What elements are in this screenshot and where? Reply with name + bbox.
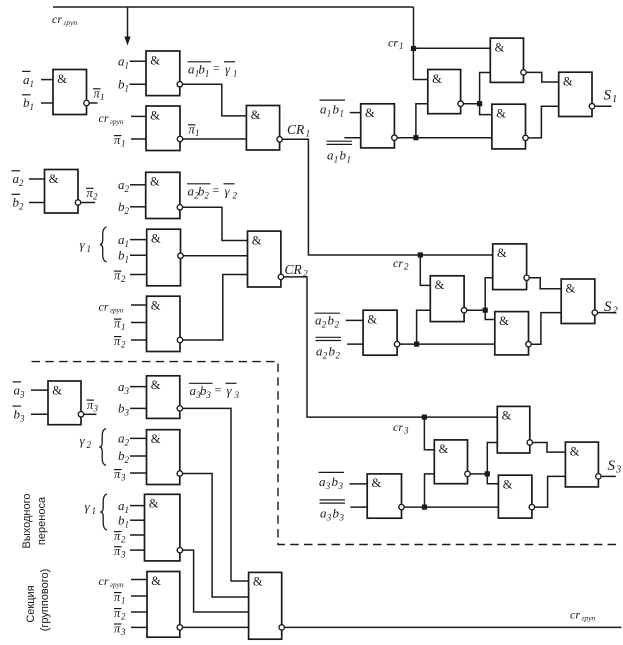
bubble V5 output <box>526 342 531 347</box>
svg-text:1: 1 <box>399 41 404 51</box>
NAND gate CR2 (carry 2) <box>248 231 281 287</box>
svg-text:&: & <box>151 574 161 588</box>
label b2 <box>118 199 130 216</box>
svg-text:2: 2 <box>336 351 341 361</box>
svg-text:&: & <box>496 107 506 121</box>
svg-text:&: & <box>252 233 262 247</box>
label cr_grup top-left <box>52 12 77 27</box>
label a3b3 double overline <box>320 500 346 523</box>
wire junction up to X2 input 2 <box>425 474 435 507</box>
NAND gate G5 (cr_grup pi1 pi2) <box>147 296 181 351</box>
NAND gate G8 (a1 b1 pi2 pi3) <box>145 494 180 561</box>
svg-text:1: 1 <box>340 109 345 119</box>
NAND gate U1 (re-invert a1b1) <box>361 104 395 148</box>
wire G5 output to CR2 input 3 <box>183 275 248 341</box>
wire pi1 input to G2 <box>131 138 146 140</box>
svg-text:b: b <box>329 344 336 359</box>
wire a2' input to P2 <box>29 178 45 180</box>
brace gamma1 group at G4 <box>100 227 107 262</box>
svg-text:1: 1 <box>92 506 97 516</box>
svg-text:1: 1 <box>334 155 339 165</box>
NAND gate V3 <box>493 244 527 290</box>
svg-text:1: 1 <box>306 130 311 140</box>
NAND gate CR1 (carry 1) <box>246 106 279 151</box>
wire a3' input to P3 <box>31 389 48 391</box>
NAND gate P1 (pi1 = not(a1'b1')) <box>53 70 87 115</box>
bubble V6 output <box>592 310 597 315</box>
svg-text:3: 3 <box>120 627 126 637</box>
NAND gate X6 (sum S3) <box>565 442 598 487</box>
wire a1 input to G8 <box>130 505 145 507</box>
NAND gate V2 <box>430 276 464 322</box>
label cr2 <box>393 256 409 272</box>
bubble G2 output <box>177 136 182 141</box>
node cr1 junction <box>411 46 416 51</box>
label b3 overline <box>13 406 26 423</box>
NAND gate X2 <box>434 440 467 484</box>
svg-text:cr: cr <box>393 256 403 270</box>
NAND gate P2 (pi2 = not(a2'b2')) <box>45 170 79 214</box>
svg-text:S: S <box>604 299 612 315</box>
label a2 at G7 <box>118 431 130 448</box>
svg-text:1: 1 <box>121 596 126 606</box>
NAND gate X1 (re-invert a3b3) <box>367 474 401 518</box>
label a1 at G4 <box>118 232 129 249</box>
label pi2 at G9 <box>114 606 126 622</box>
svg-text:груп: груп <box>582 614 596 623</box>
svg-text:Выходного: Выходного <box>21 494 33 549</box>
label a3 overline <box>13 382 26 399</box>
wire cr_grup input to G5 <box>131 304 147 306</box>
wire junction down to U5 input 1 <box>480 104 492 115</box>
label gamma1 at G4 <box>80 237 92 254</box>
svg-text:π: π <box>114 590 121 604</box>
svg-text:π: π <box>114 606 121 620</box>
svg-text:&: & <box>563 75 573 89</box>
NAND gate G3 (a2 b2) <box>146 172 180 218</box>
label S1 <box>604 88 618 106</box>
wire P2 output stub <box>81 202 95 204</box>
wire U3 output to U6 input 1 <box>526 72 559 82</box>
svg-text:2: 2 <box>121 535 126 545</box>
label cr_grup at G9 <box>99 574 124 589</box>
svg-text:2: 2 <box>93 192 98 202</box>
wire P3 output stub <box>84 413 97 415</box>
svg-text:3: 3 <box>234 390 240 400</box>
svg-text:π: π <box>114 467 121 481</box>
label pi2 at G4 <box>114 269 126 285</box>
wire b1 input to G8 <box>130 519 145 521</box>
bubble P1 output <box>84 100 89 105</box>
svg-text:3: 3 <box>93 403 99 413</box>
svg-text:1: 1 <box>125 519 130 529</box>
wire V5 output to V6 input 2 <box>531 313 561 345</box>
label pi2 at G5 <box>114 334 126 350</box>
svg-text:2: 2 <box>87 440 92 450</box>
svg-text:cr: cr <box>99 111 109 125</box>
wire cr2 down to V2 input 1 <box>420 255 430 285</box>
bubble U5 output <box>523 135 528 140</box>
svg-text:2: 2 <box>19 202 24 212</box>
svg-text:γ: γ <box>227 383 233 398</box>
brace gamma2 group at G7 <box>99 429 106 466</box>
wire S1 output <box>595 105 612 107</box>
svg-text:γ: γ <box>225 184 231 199</box>
wire pi2 input to G5 <box>131 339 147 341</box>
label cr_grup at G2 <box>99 111 124 126</box>
wire a3b3' input to X1 <box>350 483 368 485</box>
wire G1 output to CR1 input 1 <box>183 84 247 116</box>
node cr3 junction <box>422 415 427 420</box>
svg-text:2: 2 <box>125 438 130 448</box>
svg-text:&: & <box>251 108 261 122</box>
svg-text:&: & <box>49 172 59 186</box>
svg-text:&: & <box>435 278 445 292</box>
wire b2 input to G3 <box>130 206 146 208</box>
svg-text:3: 3 <box>326 513 332 523</box>
wire pi2 input to G8 <box>130 534 145 536</box>
NAND gate V6 (sum S2) <box>561 279 595 324</box>
wire junction up to U3 input 2 <box>480 73 491 104</box>
label CR1 <box>287 122 310 140</box>
label cr_grup at G5 <box>99 300 124 315</box>
wire U2 output to junction <box>463 103 479 105</box>
svg-text:3: 3 <box>124 408 130 418</box>
svg-text:2: 2 <box>121 612 126 622</box>
svg-text:=: = <box>215 383 222 397</box>
svg-text:1: 1 <box>125 61 130 71</box>
NAND gate G1 (a1 b1) <box>146 51 180 96</box>
wire V3 output to V6 input 1 <box>529 278 561 289</box>
NAND gate P3 (pi3 = not(a3'b3')) <box>48 381 81 425</box>
wire cr1 to U3 input 1 <box>414 47 491 49</box>
wire a1 input to G1 <box>130 60 147 62</box>
label a1 <box>118 54 129 71</box>
wire junction up to V3 input 2 <box>485 278 493 310</box>
svg-text:S: S <box>608 458 616 474</box>
wire pi3 input to G7 <box>130 472 147 474</box>
bubble V2 output <box>461 308 466 313</box>
wire junction up to V2 input 2 <box>417 310 431 344</box>
NAND gate U3 <box>490 38 523 82</box>
svg-text:&: & <box>439 442 449 456</box>
svg-text:cr: cr <box>393 420 403 434</box>
svg-text:&: & <box>497 246 507 260</box>
label pi1 at G9 <box>114 590 126 606</box>
label pi3 at G9 <box>114 621 126 637</box>
wire G9 output to G10 input 4 <box>183 626 249 628</box>
svg-text:2: 2 <box>19 178 24 188</box>
svg-text:π: π <box>114 269 121 283</box>
wire pi3 input to G8 <box>130 549 145 551</box>
wire pi2 input to G9 <box>131 611 147 613</box>
dashed partition line <box>32 362 620 545</box>
label cr1 <box>388 36 404 52</box>
bubble X1 output <box>399 504 404 509</box>
wire a2 input to G7 <box>130 437 147 439</box>
svg-text:3: 3 <box>19 414 25 424</box>
svg-text:2: 2 <box>121 340 126 350</box>
wire junction down to X5 input 1 <box>487 474 498 484</box>
label a1b1 = gamma1 overline <box>188 61 238 79</box>
node V2 output junction <box>483 308 488 313</box>
label pi1 on G2 output <box>188 123 200 139</box>
label pi3 at G7 <box>114 467 126 483</box>
bubble X6 output <box>596 474 601 479</box>
svg-text:cr: cr <box>99 300 109 314</box>
bubble G1 output <box>177 82 182 87</box>
svg-text:1: 1 <box>233 69 238 79</box>
svg-text:&: & <box>566 281 576 295</box>
svg-text:b: b <box>332 474 339 489</box>
label cr_grup output right <box>570 608 595 623</box>
svg-text:=: = <box>213 183 220 197</box>
svg-text:2: 2 <box>233 191 238 201</box>
svg-text:π: π <box>114 544 121 558</box>
wire P1 output stub <box>89 102 97 104</box>
svg-text:1: 1 <box>347 155 352 165</box>
bubble CR1 output <box>277 137 282 142</box>
svg-text:1: 1 <box>87 244 92 254</box>
label b1 at G4 <box>118 248 129 265</box>
wire b1 input to G1 <box>130 83 147 85</box>
wire cr_grup input to G2 <box>131 115 146 117</box>
label Sekciya gruppovogo rotated <box>25 569 51 632</box>
bubble G4 output <box>178 253 183 258</box>
NAND gate U5 <box>492 104 526 149</box>
wire W1 output bus to V5 input 2 <box>400 343 495 345</box>
wire cr_grup top horizontal <box>53 6 414 8</box>
NAND gate W1 (re-invert a2b2) <box>363 310 397 355</box>
svg-text:π: π <box>114 133 121 147</box>
svg-text:γ: γ <box>85 499 91 514</box>
NAND gate U2 <box>428 70 461 114</box>
wire b3 input to G6 <box>130 407 147 409</box>
svg-text:3: 3 <box>615 465 621 476</box>
bubble G9 output <box>177 625 182 630</box>
wire pi2 input to G4 <box>130 274 147 276</box>
svg-text:2: 2 <box>121 274 126 284</box>
NAND gate G4 (a1 b1 pi2) <box>147 229 181 286</box>
svg-text:b: b <box>328 313 335 328</box>
NAND gate V5 <box>495 312 529 355</box>
svg-text:&: & <box>151 299 161 313</box>
svg-text:&: & <box>151 378 161 392</box>
wire cr_grup drop to cr1 node <box>413 7 415 49</box>
wire G6 output gamma3 to G10 input 1 <box>183 408 249 581</box>
label a1 at G8 <box>118 498 129 515</box>
svg-text:1: 1 <box>205 69 210 79</box>
wire a2 input to G3 <box>130 184 146 186</box>
label b2 overline <box>12 194 25 211</box>
bubble G3 output <box>177 205 182 210</box>
svg-text:cr: cr <box>52 12 62 26</box>
node U2 output junction <box>477 101 482 106</box>
bubble X3 output <box>527 440 532 445</box>
svg-text:γ: γ <box>80 433 86 448</box>
wire b3' input to P3 <box>31 413 48 415</box>
wire junction down to V5 input 1 <box>485 310 495 319</box>
bubble CR2 output <box>278 274 283 279</box>
svg-text:2: 2 <box>323 351 328 361</box>
bubble G10 output <box>279 625 284 630</box>
wire pi3 input to G9 <box>131 626 147 628</box>
svg-text:&: & <box>499 314 509 328</box>
svg-text:1: 1 <box>30 79 35 89</box>
svg-text:CR: CR <box>287 122 305 137</box>
bubble U3 output <box>521 70 526 75</box>
wire a1' input to P1 <box>41 79 53 81</box>
svg-text:π: π <box>114 334 121 348</box>
label a1b1 single overline <box>320 100 346 118</box>
svg-text:1: 1 <box>195 128 200 138</box>
label gamma2 at G7 <box>80 433 92 450</box>
wire G7 output to G10 input 2 <box>183 474 249 598</box>
label a3 <box>118 379 130 396</box>
svg-text:cr: cr <box>570 608 580 622</box>
svg-text:&: & <box>495 40 505 54</box>
svg-text:&: & <box>372 476 382 490</box>
bubble U6 output <box>589 104 594 109</box>
svg-text:3: 3 <box>205 390 211 400</box>
svg-text:&: & <box>503 478 513 492</box>
label a2b2 double overline <box>316 337 342 360</box>
wire b2' input to P2 <box>29 202 45 204</box>
brace gamma1 group at G8 <box>100 494 107 530</box>
wire X2 output to junction <box>470 473 487 475</box>
svg-text:cr: cr <box>99 574 109 588</box>
bubble X5 output <box>529 504 534 509</box>
bubble P2 output <box>75 200 80 205</box>
NAND gate G9 (cr_grup pi1 pi2 pi3) <box>147 572 180 638</box>
label b2 at G7 <box>118 448 130 465</box>
svg-text:&: & <box>150 108 160 122</box>
svg-text:2: 2 <box>125 184 130 194</box>
svg-text:1: 1 <box>125 505 130 515</box>
svg-text:груп: груп <box>110 117 124 126</box>
label pi1 overline <box>93 87 105 103</box>
svg-text:(группового): (группового) <box>39 569 51 632</box>
label S2 <box>604 299 619 317</box>
bubble U1 output <box>392 135 397 140</box>
bubble X2 output <box>465 471 470 476</box>
label cr3 <box>393 420 409 436</box>
svg-text:Секция: Секция <box>25 585 37 622</box>
label pi1 at G5 <box>114 317 126 333</box>
wire a3 input to G6 <box>130 386 147 388</box>
wire CR1 output to cr2 node and V3 <box>282 139 492 255</box>
svg-text:2: 2 <box>613 306 619 317</box>
svg-text:2: 2 <box>335 320 340 330</box>
svg-text:2: 2 <box>404 262 409 272</box>
label a3b3 = gamma3 overline <box>189 383 240 401</box>
wire a2b2' input to W1 <box>346 319 363 321</box>
label b3 <box>118 401 130 418</box>
label a2 <box>118 177 130 194</box>
bubble W1 output <box>394 341 399 346</box>
NAND gate G10 (group carry out) <box>249 572 282 639</box>
wire junction up to U2 input 2 <box>416 104 428 138</box>
svg-text:&: & <box>432 72 442 86</box>
wire b2 input to G7 <box>130 455 147 457</box>
svg-text:S: S <box>604 88 612 104</box>
svg-text:1: 1 <box>327 109 332 119</box>
wire S2 output <box>598 312 617 314</box>
svg-text:&: & <box>253 575 263 589</box>
label pi1 at G2 <box>114 133 126 149</box>
svg-text:переноса: переноса <box>36 496 48 545</box>
svg-text:&: & <box>52 383 62 397</box>
svg-text:1: 1 <box>121 139 126 149</box>
svg-text:3: 3 <box>403 426 409 436</box>
svg-text:3: 3 <box>120 473 126 483</box>
bubble U2 output <box>458 101 463 106</box>
label S3 <box>608 458 622 476</box>
wire cr1 down to U2 input 1 <box>413 48 427 79</box>
node U1 output junction <box>413 135 418 140</box>
wire a1b1' input to U1 <box>350 112 361 114</box>
label b1 <box>118 77 129 94</box>
wire cr_grup input to G9 <box>131 579 147 581</box>
label b1 overline <box>22 95 34 112</box>
label a1 overline <box>22 71 34 88</box>
wire X3 output to X6 input 1 <box>533 443 566 453</box>
svg-text:cr: cr <box>388 36 398 50</box>
svg-text:1: 1 <box>125 84 130 94</box>
svg-text:2: 2 <box>125 206 130 216</box>
wire S3 output <box>601 475 616 477</box>
svg-text:3: 3 <box>338 481 344 491</box>
wire pi1 input to G5 <box>131 322 147 324</box>
label Vyhodnogo perenosa rotated <box>21 494 48 549</box>
wire U5 output to U6 input 2 <box>528 106 559 138</box>
wire X1 output bus to X5 input 2 <box>404 506 498 508</box>
svg-text:&: & <box>365 106 375 120</box>
wire a1 input to G4 <box>130 239 147 241</box>
label pi3 at G8 <box>114 544 126 560</box>
wire U1 output bus to U5 input 2 <box>397 137 492 139</box>
label a2 overline <box>12 171 25 188</box>
svg-text:2: 2 <box>322 320 327 330</box>
label gamma1 at G8 <box>85 499 97 516</box>
svg-text:1: 1 <box>121 322 126 332</box>
svg-text:груп: груп <box>64 18 78 27</box>
svg-text:&: & <box>150 53 160 67</box>
label a1b1 double overline <box>327 141 353 164</box>
NAND gate G7 (a2 b2 pi3) <box>147 430 180 485</box>
wire X5 output to X6 input 2 <box>535 476 566 507</box>
node W1 output junction <box>414 342 419 347</box>
label pi2 overline <box>86 186 98 202</box>
NAND gate G2 (cr_grup pi1) <box>146 106 180 151</box>
svg-text:3: 3 <box>325 481 331 491</box>
NAND gate G6 (a3 b3) <box>147 376 180 419</box>
svg-text:=: = <box>213 61 220 75</box>
wire a3b3'' input to X1 <box>350 506 367 508</box>
label CR2 <box>285 262 309 280</box>
wire junction up to X3 input 2 <box>487 443 497 474</box>
svg-text:b: b <box>333 506 340 521</box>
svg-text:3: 3 <box>339 513 345 523</box>
svg-text:&: & <box>57 72 67 86</box>
svg-text:b: b <box>333 102 340 117</box>
svg-text:γ: γ <box>225 62 231 77</box>
node X1 output junction <box>422 505 427 510</box>
NAND gate U6 (sum S1) <box>559 72 592 116</box>
wire CR2 output to cr3 node and V3'' <box>284 277 498 417</box>
label a3b3 single overline <box>319 472 345 491</box>
svg-text:&: & <box>149 497 159 511</box>
